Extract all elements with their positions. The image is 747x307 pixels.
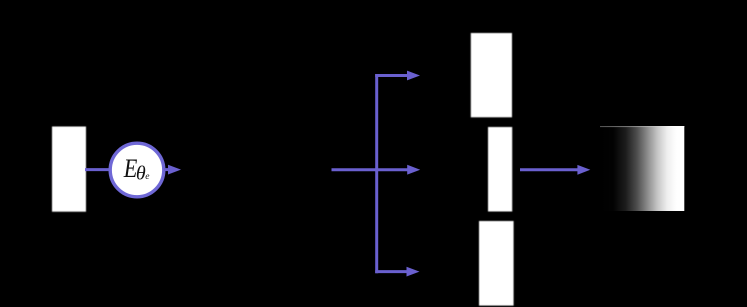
input patch rectangle bbox=[52, 127, 86, 212]
wire: splitter vertical bbox=[375, 74, 378, 273]
latent patch bottom bbox=[479, 221, 514, 306]
arrow: encoder output bbox=[164, 165, 181, 175]
arrow: bottom branch bbox=[375, 267, 419, 277]
arrow: top branch bbox=[375, 71, 420, 81]
arrow: middle patch to gradient bbox=[520, 165, 590, 175]
gradient output box bbox=[600, 126, 685, 211]
latent patch top bbox=[471, 33, 512, 117]
encoder circle E_theta_e bbox=[110, 143, 164, 197]
arrow: middle branch bbox=[375, 165, 420, 175]
wire: input to encoder bbox=[85, 168, 112, 171]
wire: into splitter bbox=[332, 168, 379, 171]
latent patch middle bbox=[488, 127, 512, 212]
svg-text:e: e bbox=[145, 172, 149, 182]
